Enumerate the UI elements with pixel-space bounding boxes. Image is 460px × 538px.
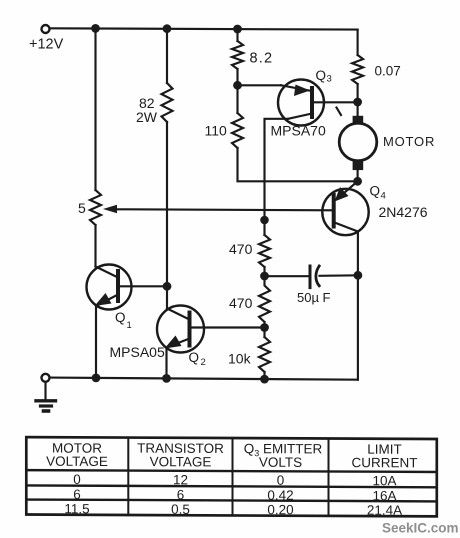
table border — [26, 437, 437, 516]
table column line 1 — [127, 438, 129, 515]
svg-text:0: 0 — [277, 473, 285, 488]
resistor 10k — [259, 337, 270, 372]
wire right column to bottom rail — [357, 275, 359, 379]
svg-text:2W: 2W — [136, 109, 158, 125]
svg-text:Q: Q — [370, 184, 381, 199]
svg-text:0.20: 0.20 — [267, 502, 293, 517]
wire node to 470 — [263, 220, 265, 235]
table row line 1 — [26, 485, 437, 487]
table header texts — [46, 440, 417, 470]
svg-text:11.5: 11.5 — [64, 501, 89, 516]
wire 82 column upper — [166, 29, 168, 83]
node top junction 8.2 — [233, 25, 242, 34]
node Q2 base junction — [260, 323, 269, 332]
label Q2 — [189, 350, 206, 368]
node top-left junction — [91, 24, 100, 33]
table header line — [26, 470, 437, 472]
svg-text:0: 0 — [73, 472, 81, 487]
svg-text:Q: Q — [189, 350, 200, 365]
table — [26, 437, 437, 518]
svg-text:10k: 10k — [228, 351, 252, 367]
resistor 5 (rheostat) — [90, 190, 101, 225]
svg-text:3: 3 — [327, 74, 332, 85]
wire Q3 collector down — [265, 119, 289, 220]
ground symbol — [36, 382, 56, 411]
wire Q3 emitter — [238, 84, 282, 86]
resistor 110 — [232, 113, 243, 148]
transistor Q4 — [322, 181, 368, 235]
svg-text:470: 470 — [229, 295, 253, 311]
node bottom rail Q2 — [162, 374, 171, 383]
svg-text:+12V: +12V — [29, 37, 64, 53]
svg-text:50µ F: 50µ F — [297, 290, 331, 305]
svg-text:1: 1 — [127, 320, 132, 331]
svg-text:Q: Q — [115, 310, 126, 325]
resistor 0.07 — [352, 55, 363, 84]
wire motor to node — [357, 170, 359, 181]
svg-text:10A: 10A — [372, 473, 396, 488]
svg-text:MPSA05: MPSA05 — [110, 344, 165, 360]
table data rows — [64, 472, 402, 518]
table column line 2 — [232, 438, 234, 515]
svg-text:0.5: 0.5 — [171, 502, 190, 517]
svg-text:110: 110 — [205, 123, 228, 139]
label Q1 — [115, 310, 132, 331]
wire Q2 emitter down — [165, 348, 167, 379]
svg-text:0.07: 0.07 — [375, 64, 401, 79]
resistor 82 2W — [162, 83, 173, 122]
resistor 470 upper — [259, 235, 270, 267]
svg-text:MOTOR: MOTOR — [383, 134, 435, 149]
wire 10k to bottom rail — [263, 372, 265, 379]
wire 110 down and right to motor bottom — [238, 148, 358, 181]
svg-text:6: 6 — [73, 487, 81, 502]
node motor bottom junction — [353, 177, 362, 186]
wire 8.2 top — [236, 29, 238, 41]
wire left column upper — [94, 28, 96, 190]
wire node to 10k — [263, 328, 265, 338]
label 82 2W — [136, 95, 158, 125]
svg-text:4: 4 — [381, 191, 386, 202]
transistor Q1 — [87, 265, 132, 310]
wire 470 to cap node — [263, 267, 265, 276]
svg-text:16A: 16A — [372, 488, 396, 503]
wire Q3 base to motor node — [312, 101, 358, 103]
node 8.2 / 110 junction — [233, 81, 242, 90]
node Q1 base junction — [163, 282, 172, 291]
node top junction 82 — [163, 24, 172, 33]
wire 0.07 to motor node — [357, 84, 359, 102]
wiper arrow of rheostat — [103, 205, 117, 214]
svg-text:MPSA70: MPSA70 — [271, 123, 326, 139]
svg-text:0.42: 0.42 — [267, 488, 293, 503]
svg-text:VOLTS: VOLTS — [259, 455, 302, 470]
table row line 2 — [26, 500, 437, 502]
node capacitor right junction — [354, 271, 363, 280]
transistor Q3 — [278, 80, 324, 126]
label Q4 — [370, 184, 386, 202]
svg-text:2: 2 — [201, 357, 206, 368]
wire 470 to Q2 base node — [263, 322, 265, 328]
svg-text:6: 6 — [177, 487, 185, 502]
svg-text:SeekIC.com: SeekIC.com — [382, 521, 459, 536]
motor M1 — [339, 116, 377, 170]
svg-text:21.4A: 21.4A — [367, 503, 402, 518]
wire top rail — [50, 28, 358, 29]
resistor 8.2 — [232, 41, 243, 69]
node 470 top junction — [260, 216, 269, 225]
resistor 470 lower — [259, 276, 270, 322]
svg-text:2N4276: 2N4276 — [379, 204, 428, 220]
wire cap left — [265, 275, 308, 277]
wire wiper to Q4 base — [116, 209, 334, 210]
wire 82 to Q2 — [166, 122, 168, 309]
wire pot to Q1 — [94, 225, 96, 267]
node motor top junction — [353, 98, 362, 107]
terminal +12V — [42, 25, 50, 33]
wire Q1 base — [118, 285, 167, 287]
transistor Q2 — [157, 306, 204, 353]
tick mark — [337, 108, 342, 116]
svg-text:Q: Q — [316, 68, 327, 83]
svg-text:5: 5 — [78, 200, 86, 216]
terminal ground — [42, 374, 50, 382]
node bottom rail Q1 — [92, 374, 101, 383]
wire Q4 collector down — [357, 232, 359, 276]
svg-text:VOLTAGE: VOLTAGE — [46, 454, 108, 469]
wire Q1 emitter down — [95, 306, 97, 379]
wire right drop to 0.07 — [357, 30, 359, 55]
wire bottom rail — [50, 378, 358, 380]
wire node to motor — [357, 102, 359, 117]
table column line 3 — [328, 439, 330, 516]
node capacitor left junction — [260, 272, 269, 281]
svg-text:8.2: 8.2 — [250, 51, 274, 67]
svg-text:470: 470 — [229, 241, 253, 257]
label Q3 — [316, 68, 332, 85]
svg-text:CURRENT: CURRENT — [352, 455, 418, 470]
node bottom rail 10k — [260, 375, 269, 384]
wire 8.2 to junction — [236, 69, 238, 113]
capacitor C1 50uF — [310, 266, 319, 288]
svg-text:12: 12 — [173, 472, 188, 487]
svg-text:VOLTAGE: VOLTAGE — [150, 454, 212, 469]
wire cap right — [320, 274, 358, 277]
wire Q2 base — [190, 326, 265, 328]
